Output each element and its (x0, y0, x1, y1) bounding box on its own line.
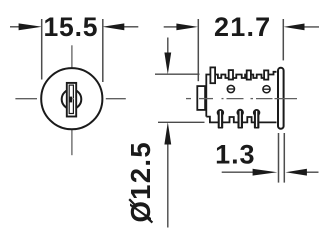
side view: top pin chamber 2 (229, 70, 233, 79)
side view: center line (186, 98, 297, 100)
side view: spring pin 3 (253, 109, 260, 129)
front view: keyway outer slot (67, 83, 76, 117)
side view: front flange (278, 68, 284, 129)
svg-text:1.3: 1.3 (215, 140, 255, 170)
dimension 21.7: extension lines (197, 19, 199, 81)
dimension 15.5: extension lines (41, 19, 43, 80)
side view: spring pin 2 (237, 109, 244, 129)
side view: security disc 2 (263, 86, 270, 93)
front view: keyway plug circle (62, 89, 82, 109)
front view: key slot notch (69, 97, 72, 103)
dimension 21.7: right arrow (284, 24, 319, 31)
side view: top pin chamber 1 (210, 67, 215, 83)
side view: cam end cap (197, 86, 205, 110)
dimension dia 12.5: top dimension line (155, 73, 200, 75)
svg-text:Ø12.5: Ø12.5 (125, 141, 156, 222)
dimension dia 12.5: O-slash overshoot (147, 217, 153, 222)
side view: body outline (206, 72, 276, 117)
side view: security disc 1 (227, 85, 234, 92)
svg-text:21.7: 21.7 (214, 12, 271, 42)
side view: top pin chamber 4 (264, 70, 268, 79)
front view: cylinder face circle (41, 68, 102, 129)
front view: vertical center line (71, 45, 73, 155)
dimension 21.7: left arrow (164, 24, 198, 31)
dimension dia 12.5: down arrow (164, 38, 171, 75)
dimension 1.3: extension lines (278, 133, 280, 183)
svg-text:15.5: 15.5 (44, 12, 99, 42)
side view: spring pin 1 (217, 109, 224, 129)
dimension dia 12.5: up arrow (164, 122, 171, 227)
dimension 1.3: left arrow (222, 169, 278, 176)
dimension 1.3: right arrow (286, 169, 319, 176)
dimension 15.5: left arrow (10, 23, 42, 30)
front view: horizontal center line (15, 98, 125, 100)
front view: key slot center mark (70, 98, 74, 100)
side view: body bottom outline (206, 117, 276, 123)
dimension 15.5: right arrow (102, 23, 138, 30)
dimension dia 12.5: bottom dimension line (158, 121, 205, 123)
front view: key slot inner (69, 85, 73, 113)
side view: top pin chamber 3 (247, 70, 251, 79)
